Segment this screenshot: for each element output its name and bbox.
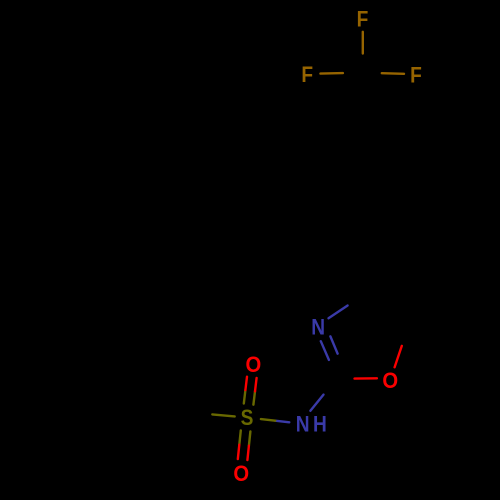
atom O1 (oxazole oxygen) <box>382 368 398 393</box>
atom F2 (left) <box>301 62 313 87</box>
bond S=O bottom, left line S half <box>239 430 241 444</box>
atom O3 (sulfonyl O bottom) <box>233 461 249 486</box>
atom S (sulfonyl sulfur) <box>241 406 254 431</box>
svg-text:O: O <box>233 461 249 486</box>
atom NH (sulfonamide nitrogen) <box>296 412 327 437</box>
bond O1-C5 (ring O half) <box>395 346 402 367</box>
bond S-C6 (to left carbon, S half) <box>212 414 234 416</box>
svg-text:O: O <box>382 368 398 393</box>
bond C7-F1 (top F, vertical) <box>362 32 364 54</box>
bond N3=C2 inner double line <box>330 336 337 353</box>
svg-text:H: H <box>313 412 327 437</box>
bond S=O bottom, left line O half <box>238 445 240 459</box>
svg-text:F: F <box>410 63 422 88</box>
atom N3 (oxazole nitrogen) <box>311 315 325 340</box>
svg-text:N: N <box>311 315 325 340</box>
bond S=O top, right line S half <box>253 391 255 404</box>
atom F3 (right) <box>410 63 422 88</box>
bond N3=C2 main line (N half) <box>321 341 329 360</box>
bond N3-C4 (oxazole, N half) <box>329 306 348 319</box>
atom O2 (sulfonyl O top) <box>246 352 262 377</box>
bond NH-S (NH half) <box>275 421 289 423</box>
bond S=O bottom, right line S half <box>249 431 251 445</box>
bond S=O bottom, right line O half <box>247 446 249 460</box>
bond S=O top, right line O half <box>255 378 257 391</box>
bond O1-C2 (ring O half) <box>355 377 377 380</box>
svg-text:F: F <box>357 7 369 32</box>
svg-text:N: N <box>296 412 310 437</box>
svg-text:F: F <box>301 62 313 87</box>
bond S-NH (S half) <box>261 419 275 421</box>
atom F1 (top) <box>357 7 369 32</box>
bond NH-C2 (NH half) <box>310 395 323 411</box>
bond C7-F3 (right F, horizontal) <box>382 72 404 75</box>
svg-text:O: O <box>246 352 262 377</box>
svg-text:S: S <box>241 406 254 431</box>
bond S=O top, left line S half <box>244 390 246 403</box>
bond S=O top, left line O half <box>245 377 247 390</box>
bond C7-F2 (left F, horizontal) <box>320 72 343 75</box>
